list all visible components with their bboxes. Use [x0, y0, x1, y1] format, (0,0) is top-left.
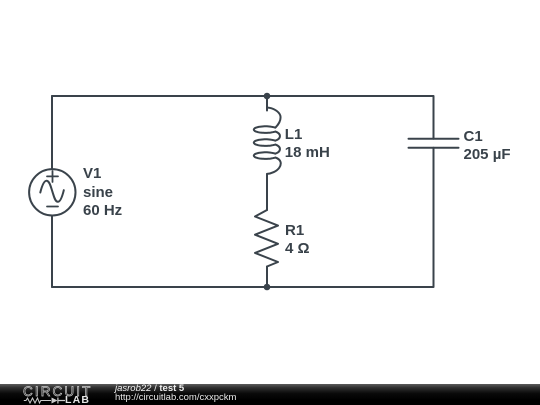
wire left upper: [51, 96, 53, 169]
logo resistor squiggle: [24, 398, 51, 403]
label R1: [285, 222, 310, 259]
capacitor C1: [409, 139, 459, 148]
node bottom junction: [264, 284, 271, 291]
V1 sine waveform: [40, 181, 64, 202]
wire inductor to resistor: [266, 174, 268, 210]
wire bottom: [52, 286, 433, 288]
node top junction: [264, 93, 271, 100]
wire left lower: [51, 216, 53, 288]
wire top: [52, 95, 433, 97]
wire right lower: [433, 148, 435, 287]
wire middle top lead: [266, 96, 268, 111]
footer title: [115, 384, 184, 394]
footer url: [115, 393, 236, 403]
V1 minus sign: [47, 206, 58, 208]
wire resistor bottom lead: [266, 267, 268, 288]
label C1: [464, 128, 511, 165]
resistor R1: [255, 210, 278, 267]
label V1: [83, 165, 122, 220]
svg-text:LAB: LAB: [65, 394, 90, 405]
inductor L1: [254, 108, 281, 174]
logo diode: [52, 398, 58, 404]
label L1: [285, 126, 330, 163]
wire right upper: [433, 96, 435, 139]
V1 plus sign: [47, 171, 58, 182]
footer bar: [0, 384, 540, 405]
voltage source V1: [29, 169, 75, 215]
